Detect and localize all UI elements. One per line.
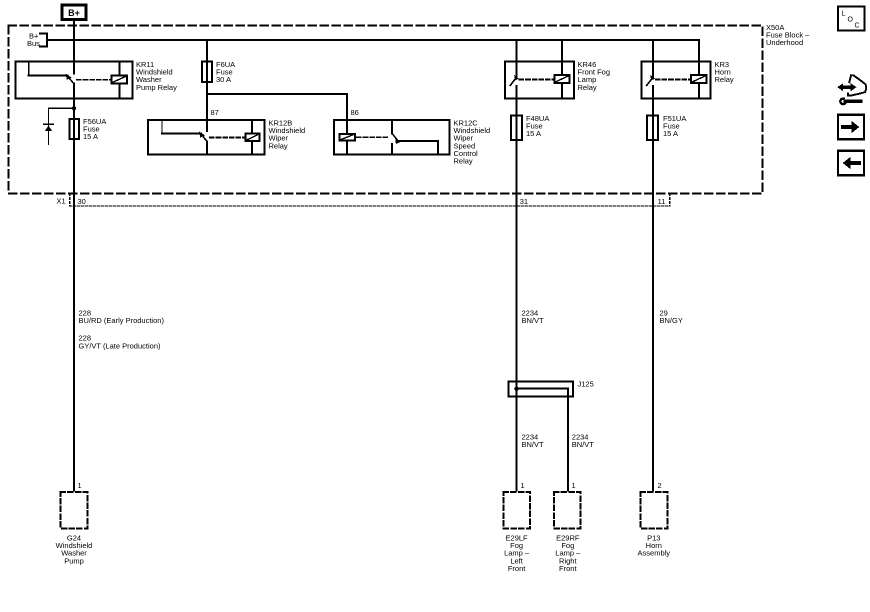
- wire KR46 output down to J125 and E29LF: [515, 86, 517, 491]
- wire bus to KR3 coil: [698, 40, 700, 62]
- svg-text:Relay: Relay: [578, 83, 597, 92]
- svg-text:Front: Front: [559, 564, 577, 573]
- label F51UA Fuse 15 A: [663, 114, 686, 138]
- label E29RF Fog Lamp Right Front: [555, 534, 581, 573]
- svg-text:Underhood: Underhood: [766, 38, 803, 47]
- label F48UA Fuse 15 A: [526, 114, 549, 138]
- svg-text:Relay: Relay: [454, 157, 473, 166]
- svg-text:X1: X1: [57, 197, 66, 206]
- relay KR11: [16, 62, 133, 99]
- fuse F48UA: [511, 116, 522, 141]
- icon LOC reference box: [838, 7, 865, 31]
- fuse F51UA: [647, 116, 658, 141]
- relay KR46: [505, 62, 574, 99]
- icon forward arrow: [838, 115, 864, 140]
- wire bus to KR46 switch: [515, 40, 517, 76]
- label KR12B Windshield Wiper Relay: [269, 119, 306, 151]
- wire B+ feed into KR11: [73, 20, 75, 74]
- label F6UA Fuse 30 A: [216, 60, 235, 84]
- relay KR12B: [148, 120, 264, 155]
- label wire 29 BN/GY: [660, 309, 683, 326]
- splice pack J125: [509, 382, 573, 397]
- wire bus bar: [47, 39, 699, 41]
- wire bus to fuse F6UA: [206, 40, 208, 94]
- wire KR11 output down to G24: [73, 84, 75, 491]
- svg-text:J125: J125: [578, 380, 594, 389]
- wire J125 to E29RF: [567, 389, 569, 491]
- label wire 2234 BN/VT upper: [522, 309, 545, 326]
- svg-text:O: O: [848, 17, 854, 24]
- svg-text:30 A: 30 A: [216, 75, 231, 84]
- svg-text:Assembly: Assembly: [638, 549, 671, 558]
- svg-text:2: 2: [658, 481, 662, 490]
- label KR3 Horn Relay: [715, 60, 734, 84]
- relay KR12C: [334, 120, 450, 155]
- label X50A Fuse Block Underhood: [766, 23, 810, 47]
- svg-text:15 A: 15 A: [83, 132, 98, 141]
- svg-text:Pump: Pump: [64, 556, 84, 565]
- svg-text:1: 1: [572, 481, 576, 490]
- symbol power continues bar and up arrow: [44, 124, 53, 131]
- label KR12C Windshield Wiper Speed Control Relay: [454, 119, 491, 166]
- wire branch to other circuits: [49, 108, 75, 144]
- fuse block X50A dashed border: [9, 26, 763, 194]
- connector E29LF dashed box: [503, 492, 530, 529]
- connector G24 dashed box: [61, 492, 88, 529]
- svg-text:1: 1: [78, 481, 82, 490]
- connector E29RF dashed box: [554, 492, 581, 529]
- label G24 Windshield Washer Pump: [56, 534, 93, 566]
- label KR46 Front Fog Lamp Relay: [578, 60, 611, 92]
- svg-text:C: C: [855, 23, 860, 30]
- svg-text:GY/VT (Late Production): GY/VT (Late Production): [79, 341, 161, 350]
- svg-text:BN/GY: BN/GY: [660, 316, 683, 325]
- wire bus to KR3 switch: [652, 40, 654, 76]
- label wire 2234 BN/VT lower left: [522, 433, 545, 450]
- wire F6UA branch to KR12C pin 86: [207, 94, 347, 134]
- connector P13 dashed box: [641, 492, 668, 529]
- label P13 Horn Assembly: [638, 534, 671, 558]
- svg-text:Pump Relay: Pump Relay: [136, 83, 177, 92]
- svg-text:30: 30: [78, 197, 86, 206]
- svg-text:1: 1: [521, 481, 525, 490]
- label KR11 Windshield Washer Pump Relay: [136, 60, 177, 92]
- label wire 228 GY/VT Late Production: [79, 334, 161, 351]
- svg-text:Front: Front: [508, 564, 526, 573]
- connector X1 dotted boundary: [70, 194, 670, 206]
- svg-text:BU/RD (Early Production): BU/RD (Early Production): [79, 316, 165, 325]
- power terminal B+: [62, 5, 86, 20]
- relay KR3: [642, 62, 711, 99]
- svg-text:15 A: 15 A: [663, 129, 678, 138]
- wire F6UA to KR12B pin 87: [206, 82, 208, 131]
- svg-text:BN/VT: BN/VT: [572, 440, 595, 449]
- svg-text:BN/VT: BN/VT: [522, 316, 545, 325]
- wire bus to KR46 coil: [561, 40, 563, 62]
- svg-text:31: 31: [520, 197, 528, 206]
- svg-text:BN/VT: BN/VT: [522, 440, 545, 449]
- icon service hand with double arrow: [837, 75, 866, 104]
- junction washer feed branch: [72, 106, 76, 110]
- label F56UA Fuse 15 A: [83, 117, 106, 141]
- svg-text:Relay: Relay: [269, 141, 288, 150]
- svg-text:Bus: Bus: [27, 39, 40, 48]
- icon back arrow: [838, 151, 864, 176]
- svg-text:L: L: [842, 11, 846, 18]
- svg-text:B+: B+: [68, 8, 80, 18]
- svg-text:86: 86: [351, 108, 359, 117]
- svg-text:15 A: 15 A: [526, 129, 541, 138]
- svg-text:Relay: Relay: [715, 75, 734, 84]
- wire KR3 output down to P13: [652, 86, 654, 491]
- svg-text:11: 11: [658, 197, 666, 206]
- fuse F56UA: [69, 119, 79, 139]
- fuse F6UA: [202, 62, 212, 82]
- label wire 228 BU/RD Early Production: [79, 309, 165, 326]
- node B+ Bus: [27, 32, 47, 49]
- label E29LF Fog Lamp Left Front: [504, 534, 530, 573]
- svg-text:87: 87: [211, 108, 219, 117]
- label wire 2234 BN/VT lower right: [572, 433, 595, 450]
